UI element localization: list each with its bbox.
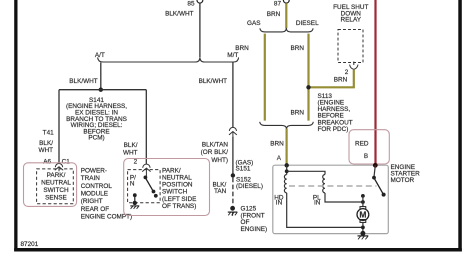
svg-text:T41: T41 — [43, 129, 54, 136]
svg-text:WHT): WHT) — [211, 157, 228, 164]
svg-text:PCM): PCM) — [88, 135, 104, 142]
svg-text:A/T: A/T — [95, 52, 105, 59]
svg-text:SENSE: SENSE — [45, 194, 67, 201]
svg-text:(RIGHT: (RIGHT — [81, 198, 103, 205]
svg-text:REAR OF: REAR OF — [81, 206, 110, 213]
svg-text:BLK/: BLK/ — [39, 140, 53, 147]
wire BRN from relay to S113 — [309, 70, 354, 88]
park/neutral position switch box — [124, 159, 210, 216]
splice S151/S152 — [231, 159, 263, 190]
svg-text:C1: C1 — [62, 159, 71, 166]
switch contact left — [133, 193, 137, 197]
mechanical linkage dashed — [289, 185, 377, 187]
splice S141 — [66, 88, 127, 142]
svg-text:PARK/: PARK/ — [47, 172, 66, 179]
wire T41 BLK/WHT to PCM — [38, 90, 59, 164]
wire S141 horizontal — [59, 89, 146, 91]
svg-text:N: N — [130, 180, 135, 187]
wire BLK/WHT M/T branch — [199, 62, 233, 127]
svg-text:BRN: BRN — [291, 45, 305, 52]
svg-text:BLK/WHT: BLK/WHT — [199, 78, 228, 85]
svg-text:A6: A6 — [43, 159, 51, 166]
engine starter motor enclosure — [273, 165, 389, 233]
svg-text:ENGINE): ENGINE) — [241, 226, 268, 233]
starter switch blade — [374, 178, 383, 194]
svg-text:MOTOR: MOTOR — [391, 177, 415, 184]
page frame right border — [458, 0, 462, 252]
svg-text:BRN: BRN — [267, 11, 281, 18]
powertrain control module box — [24, 163, 77, 207]
svg-text:BLK/: BLK/ — [124, 142, 138, 149]
svg-text:ENGINE COMPT): ENGINE COMPT) — [81, 214, 132, 221]
page frame left border — [14, 0, 17, 252]
svg-text:IN: IN — [276, 200, 283, 207]
switch contact at B — [372, 176, 376, 180]
svg-text:(LEFT SIDE: (LEFT SIDE — [162, 196, 196, 203]
wire BLK/WHT to park/neutral position switch — [123, 90, 146, 164]
wire to switch ground — [134, 195, 136, 203]
fuel shut down relay — [333, 4, 368, 62]
wire BLK/WHT from terminal 85 — [165, 3, 200, 57]
coil HD IN — [274, 175, 286, 207]
svg-text:MODULE: MODULE — [81, 191, 108, 198]
wire RED to starter terminal B — [374, 0, 376, 165]
wire B to switch contact — [374, 165, 375, 177]
svg-text:SWITCH: SWITCH — [162, 189, 188, 196]
svg-text:BRN: BRN — [334, 76, 348, 83]
label engine starter motor — [391, 164, 421, 184]
svg-text:WHT: WHT — [38, 147, 53, 154]
svg-text:B: B — [364, 153, 368, 160]
svg-text:OF TRANS): OF TRANS) — [162, 203, 196, 210]
svg-text:GAS: GAS — [247, 20, 261, 27]
starter switch blade tip dot — [382, 193, 386, 197]
junction dot coil split — [285, 169, 289, 173]
wire PL coil return — [325, 193, 363, 202]
merge bracket BRN wires — [260, 122, 314, 129]
splice S113 — [306, 85, 352, 133]
svg-text:2: 2 — [134, 159, 138, 166]
svg-text:POSITION: POSITION — [162, 182, 193, 189]
connector A6 C1 at PCM — [43, 159, 70, 172]
ground at starter motor — [358, 231, 369, 240]
svg-text:NEUTRAL: NEUTRAL — [162, 175, 192, 182]
label powertrain control module — [81, 167, 132, 220]
wire BRN from terminal 87 — [267, 3, 287, 28]
annotation box RED / B — [349, 130, 389, 164]
svg-text:POWER-: POWER- — [81, 167, 107, 174]
wire BRN gas branch — [235, 34, 265, 121]
svg-text:PARK/: PARK/ — [162, 167, 181, 174]
svg-text:RELAY: RELAY — [341, 17, 362, 24]
connector pin 2 of fuel shut down relay — [345, 62, 358, 77]
wire to PL coil — [287, 171, 325, 174]
ground G125 — [228, 206, 267, 233]
svg-text:87201: 87201 — [21, 241, 39, 248]
svg-text:FOR PDC): FOR PDC) — [318, 126, 349, 133]
svg-text:NEUTRAL: NEUTRAL — [41, 179, 71, 186]
svg-text:BLK/TAN: BLK/TAN — [202, 141, 229, 148]
svg-text:(OR BLK/: (OR BLK/ — [201, 149, 229, 156]
svg-text:BLK/WHT: BLK/WHT — [69, 78, 98, 85]
svg-text:(DIESEL): (DIESEL) — [236, 183, 263, 190]
connector pin 2 at park/neutral position switch — [134, 159, 151, 176]
svg-text:WHT: WHT — [123, 150, 138, 157]
wire BLK/WHT A/T branch — [69, 62, 101, 89]
switch blade — [146, 178, 153, 191]
svg-text:CONTROL: CONTROL — [81, 183, 113, 190]
node B junction dot — [373, 163, 378, 168]
svg-text:DIESEL: DIESEL — [296, 20, 319, 27]
motor M — [357, 207, 369, 223]
page frame bottom border — [14, 248, 462, 252]
wire BRN merged to starter terminal A — [270, 129, 286, 165]
svg-text:BRN: BRN — [235, 45, 249, 52]
svg-text:RED: RED — [355, 141, 369, 148]
switch contact top — [144, 176, 148, 180]
label park/neutral position switch — [162, 167, 196, 210]
wire A to coils — [286, 165, 288, 174]
split bracket GAS/DIESEL — [247, 20, 319, 32]
svg-text:85: 85 — [187, 1, 195, 8]
switch blade tip dot — [152, 190, 156, 194]
svg-text:IN: IN — [314, 200, 321, 207]
svg-text:M: M — [359, 210, 366, 220]
svg-text:BRN: BRN — [291, 110, 305, 117]
wire motor to ground rail — [362, 222, 364, 233]
svg-text:TAN: TAN — [214, 188, 227, 195]
svg-text:BLK/WHT: BLK/WHT — [165, 11, 194, 18]
wire BRN diesel branch — [291, 34, 309, 121]
junction dot PL return — [361, 200, 365, 204]
node motor feed top dot — [361, 194, 365, 198]
svg-text:M/T: M/T — [227, 52, 238, 59]
svg-text:BRN: BRN — [270, 141, 284, 148]
terminal 85 — [187, 0, 202, 7]
svg-text:2: 2 — [345, 69, 349, 76]
svg-text:S151: S151 — [236, 166, 251, 173]
ground at park/neutral position switch — [130, 201, 139, 209]
svg-text:A: A — [277, 155, 282, 162]
wire BLK/TAN below connector — [201, 136, 233, 175]
junction dot motor return — [361, 226, 365, 230]
split bracket A/T / M/T — [95, 52, 239, 62]
terminal 87 — [274, 0, 289, 7]
inline connector on M/T wire — [229, 127, 237, 136]
wire dashed to G125 — [212, 178, 232, 206]
wire HD coil return — [287, 193, 363, 228]
switch contact right — [154, 194, 158, 198]
svg-text:SWITCH: SWITCH — [43, 187, 69, 194]
svg-text:TRAIN: TRAIN — [81, 175, 101, 182]
svg-text:87: 87 — [274, 1, 282, 8]
wire motor feed — [362, 196, 364, 207]
coil PL IN — [313, 175, 325, 207]
node A junction dot — [285, 163, 289, 167]
